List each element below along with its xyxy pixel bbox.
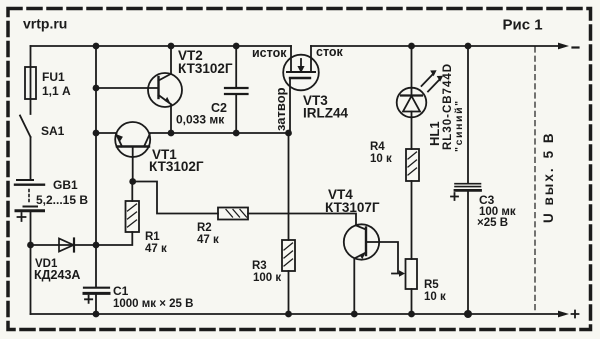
svg-text:0,033 мк: 0,033 мк [176,113,225,127]
wire VT2 collector lead [170,46,172,74]
wire VT4 base to R5 wiper [379,242,400,274]
arrowhead top rail output [558,43,569,50]
wire R1 top lead [131,182,133,202]
svg-text:47 к: 47 к [197,234,219,246]
junction top rail / VT2 collector [168,43,175,50]
wire top rail right segment to output [311,45,559,47]
junction bottom rail / R3 [285,311,292,318]
svg-text:R5: R5 [424,279,439,291]
wire R2 to VT4 collector [248,214,356,226]
diode VD1 [59,239,74,252]
junction VD1 cathode / R1 / C1 node [93,242,100,249]
svg-text:100 к: 100 к [253,272,281,284]
svg-text:исток: исток [252,46,287,60]
svg-text:1000 мк × 25 В: 1000 мк × 25 В [113,298,193,310]
svg-text:КТ3102Г: КТ3102Г [149,159,204,174]
wire HL1 branch from top rail [411,46,413,88]
svg-text:1,1 А: 1,1 А [42,84,71,98]
minus polarity mark top right [573,46,579,48]
junction node96 / VT2 base [93,85,100,92]
wire VT1 base lead to node [132,157,134,182]
battery GB1 [15,180,44,221]
wire bottom rail (plus bus) [31,313,560,315]
led HL1 [397,88,427,118]
mosfet VT3 [283,46,319,90]
resistor R1 [126,201,140,232]
svg-text:HL1: HL1 [427,121,442,146]
svg-text:затвор: затвор [273,87,288,131]
svg-text:КТ3107Г: КТ3107Г [325,200,380,215]
wire mid rail y133 (VT1 emitter / VT2 emitter / C2 / gate node) [96,132,289,134]
wire VT2 emitter lead [170,105,172,134]
wire VT1 base node to R2 [133,182,218,214]
junction bottom rail / C3 [464,310,472,318]
wire VT2 base [96,87,159,89]
svg-text:Рис 1: Рис 1 [503,17,543,34]
junction battery minus / VD1 anode [27,242,34,249]
fuse FU1 [25,67,36,99]
capacitor C3 [451,184,481,200]
svg-text:R2: R2 [197,222,212,234]
svg-text:C1: C1 [113,284,129,298]
resistor R3 [282,240,295,271]
wire VD1 row: battery minus to node at x96 [31,244,97,246]
transistor VT2 [148,73,182,107]
junction mid rail / C2 bottom [233,130,240,137]
junction VT1 base / R1 / R2 node [129,178,136,185]
wire R5 to bottom rail [411,289,413,314]
wire gate node to R3 [288,133,290,240]
junction bottom rail / C1 [93,311,100,318]
svg-text:vrtp.ru: vrtp.ru [23,16,67,32]
wire VT3 gate lead to gate node [289,78,291,133]
plus polarity mark bottom right [572,311,579,318]
capacitor C1 [84,288,109,303]
switch SA1 lever [20,116,31,138]
svg-text:КД243А: КД243А [34,268,80,282]
junction bottom rail / R5 [408,311,415,318]
junction node96 / VT1 emitter rail [93,130,100,137]
svg-text:FU1: FU1 [42,70,65,84]
led HL1 light arrows [422,70,444,91]
svg-text:47 к: 47 к [145,243,167,255]
arrowhead R5 wiper [399,270,405,276]
svg-text:×25 В: ×25 В [477,217,508,229]
arrowhead bottom rail output [558,311,569,318]
junction bottom rail / VT4 emitter [351,311,358,318]
trimmer R5 [406,259,418,289]
transistor VT1 [115,122,150,157]
svg-text:U вых.5 В: U вых.5 В [541,131,556,223]
wire C2 bottom lead [235,95,237,133]
wire HL1 to R4 [411,117,413,149]
dashed measurement line for output voltage [534,47,536,311]
junction top rail / HL1 branch [408,43,415,50]
wire left battery branch [30,46,32,314]
svg-text:"синий": "синий" [453,99,465,152]
svg-text:SA1: SA1 [41,124,65,138]
wire C3 to bottom rail [467,192,469,315]
svg-text:10 к: 10 к [424,291,446,303]
wire VT4 emitter to bottom rail [353,259,355,315]
wire top rail left segment (minus bus) [31,45,292,47]
junction mid rail / VT2 emitter [168,130,175,137]
transistor VT4 [344,224,379,259]
wire R1 bottom lead to diode node [96,232,132,245]
svg-text:IRLZ44: IRLZ44 [303,106,349,121]
svg-text:5,2...15 В: 5,2...15 В [36,193,88,207]
wire R4 to R5 [411,181,413,259]
resistor R2 [218,208,248,220]
wire C2 top lead [235,46,237,87]
svg-text:C3: C3 [479,193,495,207]
wire vertical node branch x96 (top rail to bottom rail through C1) [95,46,97,314]
junction mid rail / VT3 gate node [285,130,292,137]
junction top rail / node96 branch [93,43,100,50]
svg-text:R4: R4 [370,141,385,153]
resistor R4 [406,149,419,181]
svg-text:R1: R1 [145,231,160,243]
svg-text:КТ3102Г: КТ3102Г [178,61,233,76]
wire R3 to bottom rail [288,271,290,314]
capacitor C2 [225,88,248,94]
svg-text:GB1: GB1 [53,178,78,192]
wire C3 branch top [467,46,469,183]
junction top rail / C2 [233,43,240,50]
svg-text:R3: R3 [252,260,267,272]
junction top rail / C3 branch [465,43,472,50]
svg-text:10 к: 10 к [370,153,392,165]
svg-text:сток: сток [316,45,344,59]
